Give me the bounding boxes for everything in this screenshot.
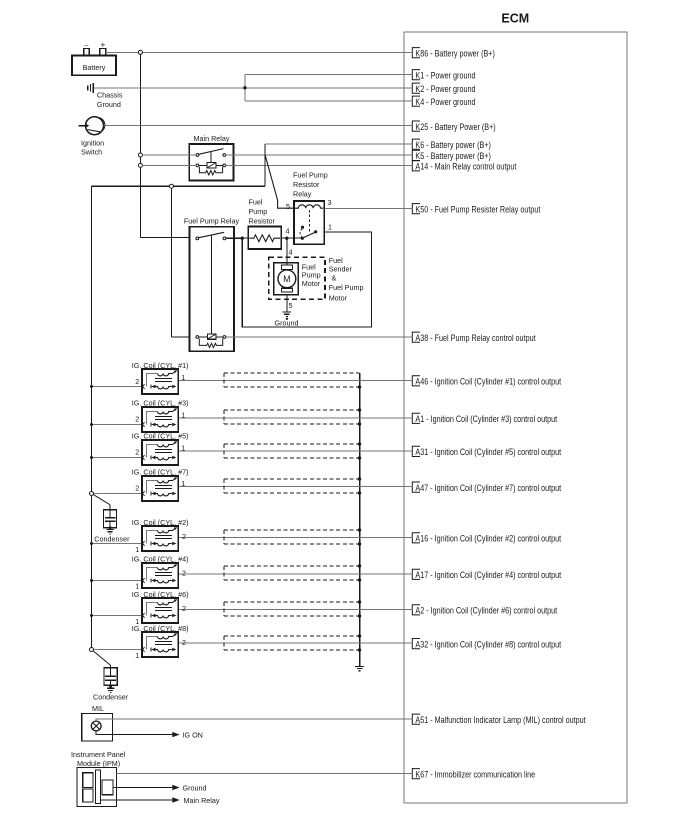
ECM pin A2 terminal bracket — [412, 605, 420, 615]
svg-text:Relay: Relay — [293, 190, 312, 199]
svg-text:2: 2 — [182, 638, 186, 647]
ignition coil #2 — [142, 526, 178, 551]
svg-text:A1 - Ignition Coil (Cylinder #: A1 - Ignition Coil (Cylinder #3) control… — [415, 414, 557, 424]
FPR relay coil — [295, 205, 323, 208]
main relay parallel resistor — [199, 167, 222, 175]
main relay coil lead right — [216, 164, 223, 166]
svg-text:2: 2 — [182, 604, 186, 613]
svg-text:–: – — [85, 42, 89, 49]
ECM pin K86 terminal bracket — [412, 48, 420, 58]
svg-text:Ground: Ground — [97, 100, 121, 109]
svg-text:A17 - Ignition Coil (Cylinder: A17 - Ignition Coil (Cylinder #4) contro… — [415, 570, 561, 580]
ECM pin K5 terminal bracket — [412, 150, 420, 160]
ECM pin K1 terminal bracket — [412, 70, 420, 80]
junction shield top coil #7 — [358, 477, 361, 480]
ECM pin A47 terminal bracket — [412, 482, 420, 492]
svg-text:K86 - Battery power (B+): K86 - Battery power (B+) — [415, 49, 495, 59]
MIL lamp circle — [91, 721, 101, 731]
ignition coil #3 — [142, 407, 178, 432]
svg-text:Module (IPM): Module (IPM) — [77, 759, 120, 768]
svg-text:Condenser: Condenser — [94, 535, 130, 544]
shield dashed box coil #8 — [224, 635, 360, 637]
wire FPR relay pin1 bypass loop — [242, 232, 371, 327]
main relay switch contact left — [196, 154, 199, 157]
wire output ignition coil #7 to ECM — [178, 486, 412, 488]
arrow ground — [172, 785, 179, 790]
junction shield bottom coil #6 — [358, 614, 361, 617]
svg-text:A2 - Ignition Coil (Cylinder #: A2 - Ignition Coil (Cylinder #6) control… — [415, 606, 557, 616]
junction shield top coil #8 — [358, 634, 361, 637]
FPR relay contact upper — [301, 226, 304, 229]
svg-text:3: 3 — [328, 198, 332, 207]
svg-text:2: 2 — [135, 448, 139, 457]
junction shield bottom coil #4 — [358, 578, 361, 581]
svg-text:Motor: Motor — [302, 279, 321, 288]
ECM pin A1 terminal bracket — [412, 413, 420, 423]
ground dot fuel pump — [286, 318, 288, 320]
svg-text:Ground: Ground — [183, 784, 207, 793]
FPR relay contact lower — [301, 237, 304, 240]
wire left rail to ignition coil #1 — [92, 386, 143, 388]
svg-text:A31 - Ignition Coil (Cylinder: A31 - Ignition Coil (Cylinder #5) contro… — [415, 447, 561, 457]
junction rail coil #1 — [90, 385, 93, 388]
fuel sender dashed box — [269, 257, 325, 299]
ECM pin A38 terminal bracket — [412, 332, 420, 342]
condenser 2 ground dot — [109, 685, 112, 688]
svg-text:K6 - Battery power (B+): K6 - Battery power (B+) — [415, 140, 491, 150]
shield dashed box coil #5 — [224, 443, 360, 445]
svg-text:1: 1 — [181, 444, 185, 453]
wire diagonal to fuel pump resistor relay pin5 — [265, 155, 294, 208]
svg-text:K50 - Fuel Pump Resister Relay: K50 - Fuel Pump Resister Relay output — [415, 205, 540, 215]
wire shield ground rail x360 — [359, 373, 361, 666]
wire fuel pump relay switch out — [226, 237, 242, 239]
motor brush bottom — [281, 288, 292, 292]
arrow IG ON — [172, 732, 179, 737]
junction rail coil #2 — [90, 542, 93, 545]
wire horizontal y186 — [92, 185, 266, 187]
svg-text:K5 - Battery power (B+): K5 - Battery power (B+) — [415, 151, 491, 161]
fuel pump motor box — [274, 263, 298, 295]
MIL lamp cross 2 — [93, 723, 100, 730]
junction shield bottom coil #8 — [358, 648, 361, 651]
battery terminal positive — [100, 49, 106, 56]
motor M circle — [278, 270, 296, 288]
svg-text:A16 - Ignition Coil (Cylinder: A16 - Ignition Coil (Cylinder #2) contro… — [415, 534, 561, 544]
svg-text:2: 2 — [182, 532, 186, 541]
junction shield bottom coil #2 — [358, 542, 361, 545]
ECM pin A46 terminal bracket — [412, 376, 420, 386]
svg-text:1: 1 — [328, 222, 332, 231]
shield dashed box coil #4 — [224, 565, 360, 567]
svg-text:Switch: Switch — [81, 148, 102, 157]
svg-text:Ground: Ground — [275, 319, 299, 328]
FPR relay actuator dashed link — [309, 210, 311, 233]
ground symbol condenser 1 — [106, 529, 114, 531]
svg-text:ECM: ECM — [501, 12, 529, 26]
svg-text:5: 5 — [289, 301, 293, 310]
svg-text:Main Relay: Main Relay — [184, 796, 220, 805]
wire ground branch vertical — [244, 74, 246, 101]
fuel pump relay actuator link — [211, 235, 213, 334]
node connector main relay switch feed — [138, 153, 142, 157]
FPR relay travel arc — [300, 229, 302, 237]
ground symbol fuel pump motor — [283, 311, 292, 313]
shield dashed box coil #6 — [224, 601, 360, 603]
arrow main relay — [172, 797, 179, 802]
junction shield bottom coil #3 — [358, 422, 361, 425]
wire vertical x265 — [264, 144, 266, 186]
wire left rail to ignition coil #2 — [92, 543, 143, 545]
ECM pin A16 terminal bracket — [412, 533, 420, 543]
svg-text:Instrument Panel: Instrument Panel — [71, 750, 126, 759]
main relay switch contact right — [223, 154, 226, 157]
svg-text:M: M — [283, 274, 291, 284]
FPR relay switch arm — [302, 232, 316, 239]
node battery junction connector — [138, 50, 142, 54]
ignition switch circle — [86, 117, 104, 135]
wire ignition switch to ECM K25 — [104, 125, 413, 127]
svg-text:2: 2 — [182, 569, 186, 578]
ECM pin A17 terminal bracket — [412, 569, 420, 579]
junction rail coil #5 — [90, 456, 93, 459]
chassis ground symbol — [87, 85, 89, 90]
condenser 1 ground dot — [109, 526, 112, 529]
ignition coil #8 — [142, 632, 178, 657]
ignition coil #5 — [142, 440, 178, 465]
junction shield top coil #6 — [358, 600, 361, 603]
junction shield top coil #4 — [358, 564, 361, 567]
condenser 1 box — [104, 510, 117, 528]
battery — [72, 55, 116, 75]
wire to K4 — [245, 100, 412, 102]
wire fuel pump relay coil to ECM A38 — [226, 336, 412, 338]
svg-text:Resistor: Resistor — [249, 217, 276, 226]
wire drop to fuel pump relay coil — [170, 188, 172, 337]
ground symbol condenser 2 — [107, 687, 115, 689]
svg-text:Condenser: Condenser — [93, 693, 129, 702]
svg-text:Fuel Pump Relay: Fuel Pump Relay — [184, 216, 240, 225]
wire IPM ground — [113, 787, 173, 789]
wire MIL to IG ON — [96, 731, 172, 735]
svg-text:K67 - Immobilizer communicatio: K67 - Immobilizer communication line — [415, 770, 535, 780]
FPR relay contact right — [314, 230, 317, 233]
ECM pin K25 terminal bracket — [412, 121, 420, 131]
wire output ignition coil #4 to ECM — [178, 573, 412, 575]
wire main relay switch to ECM K5 — [226, 154, 413, 156]
junction rail coil #3 — [90, 423, 93, 426]
junction shield bottom coil #7 — [358, 491, 361, 494]
svg-text:2: 2 — [135, 415, 139, 424]
fuel pump relay switch arm — [199, 232, 224, 237]
wire to condenser 1 — [93, 494, 110, 504]
IPM box — [77, 768, 117, 807]
motor brush top — [281, 265, 292, 270]
shield dashed box coil #2 — [224, 529, 360, 531]
svg-text:IG ON: IG ON — [183, 731, 203, 740]
svg-text:A14 - Main Relay control outpu: A14 - Main Relay control output — [415, 162, 516, 172]
wire main relay coil to ECM A14 — [226, 164, 413, 166]
fuel pump relay contact right — [223, 237, 226, 240]
fuel pump resistor zigzag — [249, 235, 280, 242]
svg-text:Fuel Pump: Fuel Pump — [329, 283, 364, 292]
junction shield top coil #2 — [358, 528, 361, 531]
main relay coil lead left — [199, 164, 207, 166]
wire IPM main relay — [100, 799, 172, 801]
junction ground branch — [243, 86, 246, 89]
svg-text:Resistor: Resistor — [293, 180, 320, 189]
svg-text:K1 - Power ground: K1 - Power ground — [415, 71, 475, 81]
ECM pin A14 terminal bracket — [412, 161, 420, 171]
condenser 2 plate top — [105, 675, 116, 677]
shield dashed box coil #7 — [224, 478, 360, 480]
wire output ignition coil #2 to ECM — [178, 536, 412, 538]
ground symbol shield rail — [355, 665, 364, 667]
svg-text:1: 1 — [135, 545, 139, 554]
svg-text:2: 2 — [135, 377, 139, 386]
junction shield bottom coil #1 — [358, 385, 361, 388]
IPM inner rect 1 — [83, 773, 93, 788]
IPM inner rect 2 — [83, 789, 93, 802]
node connector condenser 1 — [90, 492, 94, 496]
shield dashed box coil #1 — [224, 372, 360, 374]
svg-text:A32 - Ignition Coil (Cylinder: A32 - Ignition Coil (Cylinder #8) contro… — [415, 639, 561, 649]
svg-text:K25 - Battery Power (B+): K25 - Battery Power (B+) — [415, 122, 495, 132]
wire left rail to ignition coil #8 — [92, 649, 143, 651]
svg-text:2: 2 — [135, 483, 139, 492]
main relay actuator link — [210, 152, 212, 163]
node connector y186 — [169, 184, 173, 188]
IPM inner rect 4 — [102, 780, 113, 795]
junction shield top coil #3 — [358, 408, 361, 411]
junction shield top coil #5 — [358, 442, 361, 445]
svg-text:Pump: Pump — [249, 207, 268, 216]
svg-text:A51 - Malfunction Indicator La: A51 - Malfunction Indicator Lamp (MIL) c… — [415, 715, 586, 725]
fuel pump relay coil lead right — [216, 336, 223, 338]
svg-text:Battery: Battery — [83, 63, 106, 72]
ignition coil #6 — [142, 598, 178, 623]
wire chassis ground horizontal — [94, 87, 245, 89]
svg-text:Chassis: Chassis — [97, 91, 123, 100]
condenser 2 box — [104, 668, 117, 686]
svg-text:K2 - Power ground: K2 - Power ground — [415, 84, 475, 94]
wire resistor to FPR relay pin4 — [281, 237, 302, 239]
ignition coil #1 — [142, 369, 178, 394]
svg-text:Ignition: Ignition — [81, 138, 104, 147]
wire left rail to ignition coil #6 — [92, 615, 143, 617]
main relay coil terminal right — [223, 164, 226, 167]
svg-text:A47 - Ignition Coil (Cylinder: A47 - Ignition Coil (Cylinder #7) contro… — [415, 483, 561, 493]
node connector main relay coil feed — [138, 163, 142, 167]
node connector condenser 2 — [90, 648, 94, 652]
svg-text:Fuel: Fuel — [249, 198, 263, 207]
svg-text:Main Relay: Main Relay — [194, 134, 230, 143]
ECM pin K2 terminal bracket — [412, 83, 420, 93]
wire to ECM K6 — [265, 143, 412, 145]
junction rail coil #4 — [90, 579, 93, 582]
wire left rail to ignition coil #3 — [92, 424, 143, 426]
svg-text:IG. Coil (CYL. #7): IG. Coil (CYL. #7) — [132, 467, 189, 476]
junction pin4 — [285, 237, 288, 240]
fuel pump relay contact left — [196, 237, 199, 240]
ECM pin A32 terminal bracket — [412, 639, 420, 649]
wire IPM to ECM K67 — [117, 772, 413, 774]
ECM pin A51 terminal bracket — [412, 714, 420, 724]
wire rail to main relay coil — [142, 164, 196, 166]
wire motor to ground — [286, 295, 288, 312]
MIL lamp cross 1 — [93, 723, 100, 730]
junction resistor input — [241, 237, 244, 240]
svg-text:Motor: Motor — [329, 293, 348, 302]
svg-text:1: 1 — [181, 410, 185, 419]
wire fuel pump relay to resistor — [226, 237, 248, 239]
wire MIL to ECM A51 — [96, 719, 412, 721]
ignition coil #4 — [142, 563, 178, 588]
wire output ignition coil #1 to ECM — [178, 379, 412, 381]
fuel pump relay coil terminal left — [196, 336, 199, 339]
svg-text:5: 5 — [286, 202, 290, 211]
condenser 1 plate bottom — [105, 520, 115, 522]
shield dashed box coil #3 — [224, 409, 360, 411]
wire output ignition coil #3 to ECM — [178, 417, 412, 419]
svg-text:A38 - Fuel Pump Relay control: A38 - Fuel Pump Relay control output — [415, 333, 536, 343]
wire rail to main relay switch — [142, 154, 196, 156]
wire output ignition coil #5 to ECM — [178, 450, 412, 452]
wire left rail to ignition coil #7 — [92, 493, 143, 495]
wire to K2 — [245, 87, 412, 89]
wire pin4 down to fuel pump motor — [286, 238, 288, 265]
svg-text:4: 4 — [286, 226, 290, 235]
wire left rail to ignition coil #5 — [92, 457, 143, 459]
ignition switch lead — [79, 125, 86, 127]
ignition coil #7 — [142, 476, 178, 501]
wire battery feed rail x140 — [139, 52, 141, 237]
wire output ignition coil #8 to ECM — [178, 642, 412, 644]
svg-text:1: 1 — [181, 479, 185, 488]
wire to condenser 2 — [93, 651, 110, 666]
ECM box — [404, 32, 627, 803]
svg-text:+: + — [100, 39, 105, 49]
condenser 1 plate top — [105, 517, 115, 519]
wire into fuel pump relay coil — [171, 336, 189, 338]
wire battery+ to ECM K86 — [106, 51, 413, 53]
wire output ignition coil #6 to ECM — [178, 608, 412, 610]
svg-text:1: 1 — [181, 373, 185, 382]
svg-text:4: 4 — [289, 247, 293, 256]
MIL box — [82, 714, 113, 741]
wire to K1 — [245, 73, 412, 75]
wire left rail to ignition coil #4 — [92, 580, 143, 582]
ECM pin A31 terminal bracket — [412, 446, 420, 456]
main relay switch arm — [199, 149, 224, 155]
ECM pin K50 terminal bracket — [412, 204, 420, 214]
wire left rail x91 — [91, 186, 93, 649]
main relay coil terminal left — [196, 164, 199, 167]
ECM pin K67 terminal bracket — [412, 769, 420, 779]
wire battery feed to fuel pump relay — [140, 237, 189, 239]
ECM pin K4 terminal bracket — [412, 96, 420, 106]
junction rail coil #6 — [90, 614, 93, 617]
condenser 2 plate bottom — [105, 679, 116, 681]
fuel pump relay coil lead left — [199, 336, 208, 338]
fuel pump relay parallel resistor — [199, 339, 222, 348]
fuel pump relay coil — [207, 334, 216, 339]
junction shield bottom coil #5 — [358, 456, 361, 459]
svg-text:&: & — [332, 274, 337, 283]
main relay coil — [207, 163, 216, 168]
svg-text:1: 1 — [135, 651, 139, 660]
battery terminal negative — [84, 49, 90, 56]
svg-text:Sender: Sender — [329, 265, 353, 274]
svg-text:MIL: MIL — [92, 704, 104, 713]
svg-text:Fuel Pump: Fuel Pump — [293, 171, 328, 180]
IPM inner rect 3 — [95, 770, 100, 804]
wire FPR relay pin3 to ECM K50 — [324, 207, 412, 209]
ECM pin K6 terminal bracket — [412, 139, 420, 149]
svg-text:A46 - Ignition Coil (Cylinder: A46 - Ignition Coil (Cylinder #1) contro… — [415, 377, 561, 387]
fuel pump relay coil terminal right — [223, 336, 226, 339]
svg-text:K4 - Power ground: K4 - Power ground — [415, 97, 475, 107]
